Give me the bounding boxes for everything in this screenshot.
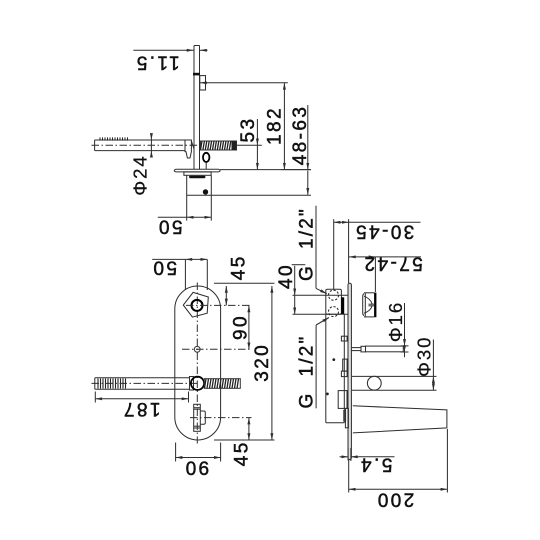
svg-text:48-63: 48-63 [290,105,311,166]
svg-text:Φ16: Φ16 [385,301,406,342]
svg-text:G 1/2": G 1/2" [297,335,318,409]
svg-text:45: 45 [229,254,250,280]
svg-text:90: 90 [183,456,209,477]
svg-text:320: 320 [252,343,273,382]
svg-text:5.4: 5.4 [359,454,393,475]
svg-text:50: 50 [157,215,183,236]
svg-text:90: 90 [231,314,252,340]
svg-text:G 1/2": G 1/2" [297,207,318,281]
svg-text:50: 50 [151,256,177,277]
svg-text:Φ30: Φ30 [413,336,434,377]
svg-text:40: 40 [276,263,297,289]
svg-text:57-42: 57-42 [362,252,423,273]
svg-text:187: 187 [122,398,161,419]
svg-text:11.5: 11.5 [134,51,179,72]
svg-text:200: 200 [375,489,414,510]
svg-text:182: 182 [265,106,286,145]
svg-text:45: 45 [231,440,252,466]
svg-text:Φ24: Φ24 [129,154,150,195]
svg-text:30-45: 30-45 [354,220,415,241]
svg-text:53: 53 [238,117,259,143]
